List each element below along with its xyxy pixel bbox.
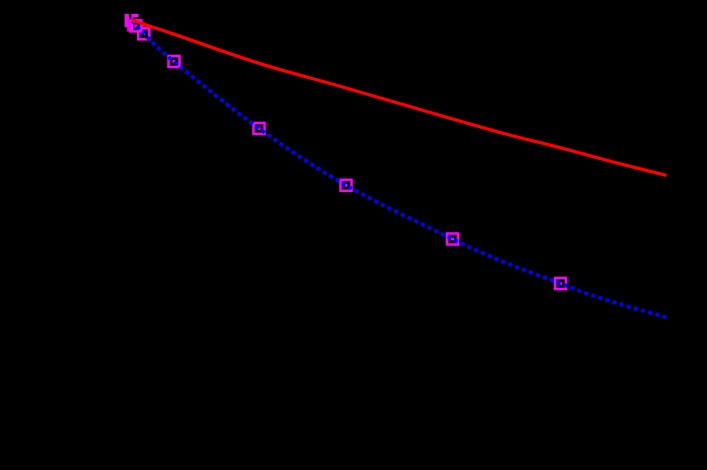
cluster mark: "3"-shaped top bar [131,14,138,17]
cluster mark: "1"-shaped magenta bar [125,14,129,32]
marker square P2 at (174,61.5) [169,56,180,67]
marker square P5 at (452.5,239) [447,234,458,245]
marker dot P5 [451,238,454,241]
marker square P4 at (346,185.3) [341,180,352,191]
marker dot P1 [142,32,145,35]
red solid curve [132,20,667,175]
marker square P6 at (560.5,283.5) [555,278,566,289]
marker square P3 at (259,128.5) [254,123,265,134]
marker square P0 at (136.5,25.9) [130,20,141,31]
marker dot P6 [559,282,562,285]
marker dot P0 [134,25,137,28]
marker dot P3 [258,127,261,130]
blue dotted curve [132,21,666,318]
marker dot P2 [173,60,176,63]
cluster mark: "3"-shaped left vertical [131,14,133,31]
marker square P1 at (143.8,33.8) [138,28,149,39]
marker dot P4 [345,184,348,187]
